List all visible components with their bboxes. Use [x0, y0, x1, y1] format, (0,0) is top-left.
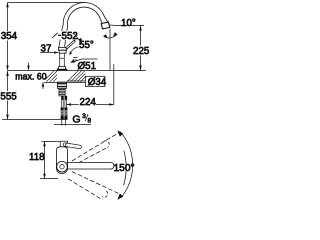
- dashed swivel spout lower centerline: [72, 172, 121, 195]
- 118 dimension: [44, 142, 46, 179]
- svg-text:Ø34: Ø34: [88, 77, 107, 88]
- leader to 10 deg: [109, 24, 117, 27]
- svg-text:354: 354: [1, 31, 18, 42]
- 224 dimension: [67, 104, 79, 106]
- svg-text:Ø51: Ø51: [78, 61, 97, 72]
- max 60 bottom arrow: [42, 82, 44, 89]
- 118 top extension line: [42, 141, 64, 143]
- faucet body column: [59, 53, 61, 67]
- swivel fan arc outer: [121, 132, 133, 198]
- svg-text:555: 555: [0, 92, 17, 103]
- braided hoses: [61, 108, 64, 120]
- max 60 top arrow: [28, 63, 30, 70]
- dashed swivel spout upper lower edge: [79, 147, 108, 162]
- threaded shank: [59, 88, 65, 96]
- deck hatching right: [67, 71, 85, 82]
- 10 deg underline: [117, 25, 145, 27]
- bottom view spout bar: [67, 162, 115, 169]
- hose upper thin section: [61, 100, 63, 107]
- svg-text:10°: 10°: [121, 18, 136, 29]
- spout tube outer: [59, 3, 109, 48]
- outlet aerator piece: [101, 22, 110, 29]
- 225 dimension line: [140, 26, 142, 46]
- svg-text:224: 224: [80, 97, 97, 108]
- bottom view body stadium: [56, 147, 67, 174]
- mounting nut: [57, 82, 66, 88]
- dashed swivel spout lower edge: [68, 179, 103, 200]
- countertop deck top line: [8, 70, 147, 72]
- extension line for 224 right: [113, 64, 115, 105]
- faucet head: [59, 47, 67, 50]
- svg-text:225: 225: [133, 46, 149, 57]
- arrow up 555 top: [6, 71, 9, 76]
- inner angle arc: [124, 151, 127, 186]
- svg-text:118: 118: [29, 152, 45, 163]
- water axis vertical line: [109, 29, 111, 70]
- svg-text:8: 8: [88, 117, 92, 124]
- svg-text:3: 3: [82, 113, 86, 120]
- top extension line from spout apex: [8, 2, 85, 4]
- dimension line 354/555 vertical: [7, 3, 9, 32]
- svg-text:150°: 150°: [114, 163, 135, 174]
- dashed swivel spout upper cap: [104, 141, 109, 148]
- countertop deck bottom line: [44, 81, 85, 83]
- base flange: [58, 67, 66, 70]
- lever handle: [67, 41, 75, 48]
- hose connectors: [61, 96, 64, 100]
- deck hatching left: [45, 71, 57, 82]
- arrow up 354 top: [6, 3, 9, 8]
- bottom view body top cap: [60, 141, 67, 147]
- hose tails below: [61, 120, 63, 126]
- bottom extension line at hose end: [2, 119, 68, 121]
- bottom view lever: [65, 145, 80, 147]
- 118 bottom extension line: [40, 178, 58, 180]
- svg-text:55°: 55°: [79, 40, 94, 51]
- svg-text:G: G: [72, 113, 80, 125]
- Ø34 boxed label with leader: [67, 80, 86, 82]
- arrow down 555 bottom: [6, 115, 9, 120]
- 10 degree arc with arrows: [104, 34, 118, 38]
- dashed swivel spout lower cap: [102, 191, 108, 197]
- svg-text:552: 552: [62, 31, 78, 42]
- bottom view swivel circle: [57, 161, 68, 172]
- spout tube inner: [65, 7, 102, 47]
- svg-text:max. 60: max. 60: [15, 71, 46, 81]
- dashed swivel spout upper centerline: [72, 132, 121, 161]
- arrow down 354 bottom: [6, 66, 9, 71]
- 552 dimension label with oblique ticks: [60, 31, 79, 40]
